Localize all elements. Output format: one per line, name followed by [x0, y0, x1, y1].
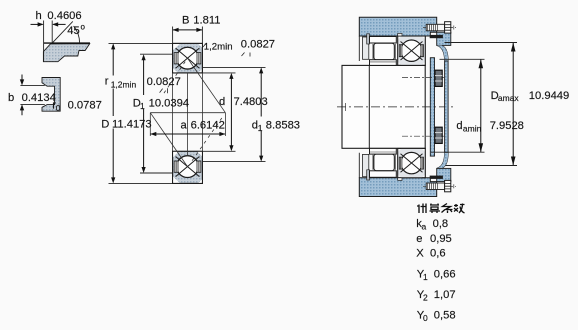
svg-text:0,6: 0,6: [430, 248, 446, 260]
roller bearing top: roller: [374, 43, 394, 60]
QJ bearing bottom (right drawing): [398, 148, 426, 177]
char xi: [442, 204, 453, 214]
shaft: [342, 65, 425, 148]
dimension D1 extension lines: [140, 54, 173, 173]
leader dashes below 0.0827 top right: [242, 53, 251, 57]
svg-text:0.4134: 0.4134: [22, 92, 56, 104]
detail1 dimension h arrows: [31, 22, 66, 26]
dimension B: line and arrows: [173, 28, 203, 32]
top bearing corner chamfer wedges: [173, 44, 179, 50]
svg-text:1: 1: [423, 272, 428, 282]
dimension D: vertical line with arrows: [111, 43, 115, 183]
a dimension extension ticks: [150, 113, 225, 136]
shadow bar under bolt boss top: [430, 35, 443, 38]
cover flange bottom: [437, 168, 451, 181]
svg-text:r: r: [105, 75, 109, 87]
svg-text:0,95: 0,95: [430, 233, 452, 245]
svg-text:1,2min: 1,2min: [111, 80, 137, 90]
leader dashes below left 0.0827: [160, 88, 168, 93]
bolt1 top (housing cover bolt): [423, 22, 456, 33]
dimension B extension lines: [173, 27, 203, 44]
svg-text:h: h: [36, 10, 42, 22]
locating ring QJ bottom: [398, 178, 402, 181]
bottom bearing section: outer square: [173, 151, 203, 183]
svg-text:6.6142: 6.6142: [191, 119, 225, 131]
svg-text:a: a: [181, 119, 188, 131]
bottom bearing ball: [177, 156, 199, 178]
shaft shoulder line: [368, 65, 370, 148]
svg-text:8.8583: 8.8583: [266, 119, 300, 131]
roller bearing top: cage bars: [373, 44, 395, 59]
roller bearing top: outer ring: [370, 37, 397, 44]
svg-text:0,66: 0,66: [434, 269, 456, 281]
svg-text:D: D: [101, 118, 109, 130]
dimension d1 extension lines: [202, 67, 265, 161]
svg-text:0,58: 0,58: [434, 310, 456, 322]
detail1 extension line right: [51, 21, 53, 44]
cover transition arcs bottom: [437, 153, 445, 169]
svg-text:d: d: [219, 96, 225, 108]
bearing connecting edge lines: [173, 73, 203, 156]
svg-text:0.4606: 0.4606: [47, 10, 81, 22]
char ji: [417, 204, 426, 214]
svg-text:1,2min: 1,2min: [204, 41, 233, 52]
svg-text:0.0827: 0.0827: [147, 76, 181, 88]
bearing axis line horizontal: [150, 112, 225, 114]
top bearing left land: [174, 53, 178, 64]
roller bearing bottom: outer ring: [370, 171, 397, 178]
detail1 snap-ring cross-section fill: [43, 44, 89, 62]
svg-text:e: e: [416, 233, 422, 245]
locating ring QJ top: [398, 33, 402, 36]
svg-text:10.0394: 10.0394: [149, 98, 189, 110]
svg-text:amin: amin: [463, 123, 482, 133]
roller bearing bottom: cage bars: [373, 155, 395, 170]
svg-text:0: 0: [423, 313, 428, 323]
detail1 extension line left: [43, 21, 45, 62]
detail2 dimension line bottom: [20, 103, 44, 105]
bottom bearing right land: [197, 161, 201, 172]
QJ bearing top (right drawing): [398, 36, 426, 65]
detail2 dimension line top: [20, 84, 44, 86]
bolt2 top (clamp plate bolt head): [402, 70, 446, 86]
roller bearing bottom: inner ring: [370, 148, 397, 154]
housing top: [359, 17, 436, 36]
housing left wall lines: [358, 36, 360, 178]
dimension Da max: [511, 43, 516, 166]
svg-text:1,07: 1,07: [434, 289, 456, 301]
bolt2 bottom (mirror): [402, 127, 446, 143]
char shu: [454, 204, 465, 214]
bottom bearing X contact cross: [176, 157, 200, 177]
svg-text:X: X: [416, 248, 424, 260]
roller bearing bottom: roller: [374, 154, 394, 171]
svg-text:1: 1: [140, 101, 145, 111]
contact line dashed: top ball to left crossing: [163, 62, 186, 96]
svg-text:b: b: [8, 92, 14, 104]
roller bearing top: inner ring: [370, 60, 397, 66]
dimension D1: vertical line with arrows: [142, 54, 146, 173]
dimension a: horizontal line with arrows: [150, 132, 225, 136]
detail1 ring top edge line: [44, 42, 90, 44]
bottom bearing left land: [174, 161, 178, 172]
top bearing right land: [197, 53, 201, 64]
housing bottom: [359, 178, 436, 197]
da min extension lines: [431, 59, 485, 152]
svg-text:o: o: [81, 23, 86, 32]
bolt1 bottom (mirror): [423, 180, 456, 191]
svg-text:a: a: [422, 222, 427, 232]
svg-text:7.9528: 7.9528: [490, 120, 524, 132]
axis tick: [345, 103, 347, 111]
locating tab bottom: [367, 170, 370, 180]
spacer ring bottom: [363, 154, 369, 176]
cover transition arcs top: [437, 45, 445, 61]
heading (CJK strokes drawn): [417, 204, 465, 214]
locating tab top: [367, 34, 370, 44]
dimension d extension lines: [202, 73, 235, 151]
svg-text:0: 0: [56, 103, 61, 113]
svg-text:7.4803: 7.4803: [234, 96, 268, 108]
spacer ring top: [363, 37, 369, 59]
axis center line: [337, 106, 456, 108]
svg-text:0.0827: 0.0827: [241, 38, 275, 50]
bottom bearing corner chamfer wedges: [173, 177, 179, 183]
top bearing ball: [177, 47, 199, 69]
top bearing section: outer square: [173, 43, 203, 73]
svg-text:1.811: 1.811: [193, 15, 220, 27]
char suan: [430, 204, 441, 214]
svg-text:d: d: [456, 120, 462, 132]
detail2 arrow top: [20, 75, 24, 86]
dimension D extension lines: [109, 43, 173, 183]
svg-text:amax: amax: [498, 93, 520, 103]
Da max extension lines: [445, 43, 518, 166]
contact line solid: top ball to right crossing: [188, 58, 226, 113]
svg-text:0,8: 0,8: [433, 218, 449, 230]
top bearing X contact cross: [176, 48, 200, 68]
contact line solid: left crossing to bottom ball: [150, 113, 187, 167]
detail1 45deg chamfer line: [52, 21, 73, 43]
detail2 arrow bottom: [20, 104, 24, 115]
svg-text:2: 2: [423, 293, 428, 303]
svg-text:B: B: [182, 15, 189, 27]
svg-text:45: 45: [67, 25, 79, 37]
dimension d1: vertical line with arrows: [259, 67, 263, 161]
clamp plate (against QJ inner ring): [430, 58, 434, 156]
dimension da min: [479, 59, 484, 152]
cover flange top: [437, 32, 451, 45]
leader for 1,2min top: [203, 43, 207, 47]
shadow bar bottom: [430, 176, 443, 179]
dimension d: vertical line with arrows: [229, 73, 233, 151]
contact line dashed: right crossing to bottom ball: [190, 118, 222, 163]
svg-text:10.9449: 10.9449: [529, 90, 569, 102]
svg-text:1: 1: [258, 123, 263, 133]
svg-text:11.4173: 11.4173: [112, 118, 152, 130]
detail1 angle arc: [74, 26, 80, 43]
cover outer strip: [445, 61, 449, 153]
detail2 ring cross-section (C shape): [42, 78, 60, 112]
svg-text:0.0787: 0.0787: [68, 99, 102, 111]
